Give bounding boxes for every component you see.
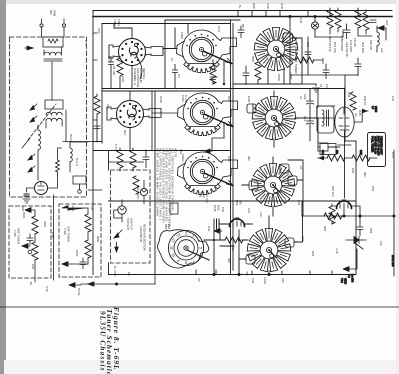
dashed enclosure VHF osc tuner [9,206,51,278]
arrow test point [214,229,222,234]
switch wafer S2B rear (toothed) [178,93,238,136]
svg-text:LOCATED IN: LOCATED IN [139,226,143,242]
wire row1 right bus hang [290,75,345,89]
svg-text:L16D: L16D [263,277,267,284]
svg-text:R25: R25 [311,251,315,257]
arrow b+ feed [88,282,94,286]
wire chain A [34,210,36,282]
switch arm diagonal [114,230,122,238]
svg-text:T04: T04 [340,278,344,283]
svg-text:C15: C15 [227,96,231,102]
svg-text:3000: 3000 [22,212,26,219]
svg-text:C40: C40 [299,18,303,24]
svg-text:33K: 33K [227,258,231,263]
capacitor chain B [80,258,86,269]
wire V3 bottom [338,137,351,145]
crystal diode M1 [311,22,318,29]
wire x155 stub [154,275,156,285]
svg-text:C3: C3 [325,84,329,88]
coil L31 [377,32,379,46]
wire wheel column left border pair [230,20,232,275]
svg-text:T-69L: T-69L [13,230,17,238]
wire row1/row2 section line [102,88,345,90]
svg-text:VHF TUNER: VHF TUNER [17,228,21,244]
junction dots right [359,215,361,217]
wire R31 [329,8,331,34]
svg-text:5600: 5600 [251,56,255,63]
tube V1 6BC8 envelope [35,182,48,195]
wire wheel2 right [295,118,338,147]
resistor R33 [296,57,314,63]
wire caps column riser [309,89,311,142]
svg-text:S4: S4 [197,278,201,282]
svg-text:31A: 31A [321,150,325,155]
svg-text:BKT: BKT [164,224,168,230]
svg-text:C34: C34 [207,226,211,232]
wire wheel3 stubs [242,157,303,216]
agc hook arrow [378,28,386,40]
coil tab row1 [283,33,293,43]
wire wheel2 stubs [253,91,274,147]
wire S2B out [223,123,225,138]
svg-text:390: 390 [247,156,251,161]
svg-text:INPUT FROM UHF TUNER: INPUT FROM UHF TUNER [294,37,298,75]
wire V3 left pins [317,106,335,118]
wire S1A stem up [114,24,132,39]
coil L7 slug box [70,148,72,162]
oscillator wheel L14 channel coil row2 [252,97,296,140]
switch contact arrow 2 [30,116,37,122]
resistor R34 vertical [335,10,341,28]
ground V1 cathode [23,199,30,203]
transformer T1 core [44,59,62,61]
wire inner shield left vertical [101,24,103,144]
wire right shield border x345 [344,89,346,142]
ground sym y84 [313,84,320,92]
wire R12 [119,148,121,171]
svg-text:1000: 1000 [75,250,79,257]
wire b+ feed row4 [81,283,155,285]
svg-text:F62A: F62A [180,32,184,39]
svg-text:IN MF, ABOVE 1 IN MMF, K=1000: IN MF, ABOVE 1 IN MMF, K=1000 OHMS. [156,148,160,218]
svg-text:B+456: B+456 [351,274,355,283]
wire wheel1 down [268,68,284,84]
extra structural wires [132,66,395,218]
svg-text:F66A: F66A [181,154,185,161]
svg-text:1000: 1000 [247,96,251,103]
wire to b+ ply arrow [69,283,81,288]
svg-text:R60: R60 [21,206,25,212]
antenna terminal G2 [62,24,65,27]
svg-text:C25: C25 [227,156,231,162]
switch pointer S1A [137,57,142,79]
svg-text:L31: L31 [380,48,384,53]
capacitor C6a [238,26,244,38]
wire S1A right wing out [163,28,175,49]
arrow chain B top [62,206,88,211]
svg-text:UHF TUNER: UHF TUNER [67,226,71,242]
svg-text:V3: V3 [354,113,358,117]
switch wafer S1A front [109,39,163,66]
wire V4 leads [332,206,361,216]
wire S1B out down [223,60,225,84]
wire B+ top bus lower [93,16,392,18]
wire A1 bottom stem [131,66,133,89]
svg-text:C8: C8 [90,206,94,210]
svg-text:9L35U Chassis: 9L35U Chassis [98,311,107,372]
capacitor C21 [307,121,314,127]
svg-text:SA2: SA2 [179,149,183,155]
capacitor chain A [27,234,33,245]
capacitor C1 [108,56,114,71]
svg-text:TO PILOT: TO PILOT [126,218,130,231]
channel dial plate outline [158,230,209,268]
svg-text:1000: 1000 [121,76,125,83]
svg-text:(CHANNEL 1): (CHANNEL 1) [133,68,137,85]
svg-text:IN F7A: IN F7A [69,134,73,143]
arrow to b+ [343,267,349,272]
trimmer C20 box [318,143,328,151]
svg-text:2: 2 [185,231,187,235]
wire osc junction vertical [214,219,239,275]
svg-text:8: 8 [185,261,187,265]
junction b+ feed [115,283,117,285]
svg-text:B+3 C: B+3 C [75,158,79,166]
wire lamp down arrow [115,242,119,252]
wire coil chain vertical [37,125,39,180]
switch contact arrow 1 [30,104,37,110]
wire left lower border x108.5 [108,151,110,275]
wire antenna sec out [63,142,102,191]
svg-text:AGC: AGC [385,20,389,26]
wire heater bus left ext [302,202,320,216]
svg-text:120: 120 [379,241,383,246]
resistor R41 plate [350,92,356,110]
coil tab row2 left [247,104,256,113]
wire L31 [376,26,378,52]
wire shield top rf x165-240 [165,19,240,21]
wire right edge feed [393,216,395,276]
switch wafer S2A front [107,101,161,128]
svg-text:OSC: OSC [217,205,221,211]
svg-text:C10: C10 [106,104,110,110]
coil L5 core [327,110,329,126]
svg-text:5600: 5600 [96,236,100,243]
wire V1 plate out [48,172,58,188]
wire S2A stem [129,91,131,151]
dial hub screw [184,246,188,250]
svg-text:C50: C50 [351,168,355,174]
svg-text:HTR: HTR [280,3,284,9]
svg-text:R40 1K: R40 1K [363,96,367,105]
svg-text:4.7K: 4.7K [335,248,339,254]
wire top right bus [290,31,372,75]
wire V3 cathode down [344,145,346,198]
svg-text:GND: GND [344,278,348,284]
resistor R35 vertical [363,12,369,30]
oscillator wheel L15 channel coil row3 [251,164,295,207]
wire heater bus [320,215,394,217]
wire top bus ticks [238,11,358,17]
coil tab row3 [280,164,289,173]
wire antenna leads [42,27,65,37]
svg-text:LMWV 82ND: LMWV 82ND [340,36,344,51]
svg-text:L2: L2 [170,58,174,62]
balun network box [43,37,63,47]
svg-text:C41 1500: C41 1500 [349,40,353,53]
oscillator wheel L13 channel coil row1 [254,28,298,71]
svg-text:1-YTL: 1-YTL [114,144,118,152]
channel dial number ring [174,236,198,260]
wire V3 right pins [354,111,368,122]
svg-text:11: 11 [169,246,173,250]
coil tab row3 left [249,181,258,190]
svg-text:R19: R19 [235,200,239,206]
svg-text:B+ 275V: B+ 275V [113,266,117,277]
svg-text:240: 240 [231,246,235,251]
svg-text:1.3 +: 1.3 + [84,40,88,47]
trimmer cap C16 [320,144,336,155]
arrow L8 [362,109,368,114]
arrow row2 gnd [205,149,212,153]
svg-text:R51 100: R51 100 [331,186,335,197]
wire V2B cathode [220,223,253,225]
tube V3 6U8 envelope [335,107,354,137]
coil tab row4 [246,255,255,264]
resistor R31 vertical [327,10,333,28]
identification plate T-69L VHF-UHF TUNER [368,133,386,167]
arrow chain B bottom [62,262,88,267]
svg-text:DC: DC [127,272,131,276]
oscillator wheel L16 channel coil row4 [247,229,291,272]
wire T1 to T2 link [51,62,53,100]
wire R7 [212,60,214,84]
wire y84 extension [302,83,316,85]
svg-text:HFM 300: HFM 300 [391,255,395,267]
resistor R43 [352,155,370,161]
resistor R32 vertical [355,10,361,28]
wire Y1A [346,240,366,249]
wire shield divider x165 [164,20,166,89]
svg-text:L6: L6 [299,166,303,170]
svg-text:LIGHT 2V: LIGHT 2V [130,218,134,230]
antenna coil L1 [38,130,41,150]
tube V3 grid dashes [339,108,349,126]
wire wheel1 right tab [292,38,302,84]
wire A2 to B2 [152,112,177,114]
wire R34 R35 [338,8,366,34]
svg-text:GEE 011 PR: GEE 011 PR [345,42,349,57]
wire shield top row1 [102,23,230,25]
wire row3/row4 section line [109,200,357,202]
wire right edge riser [393,150,395,216]
svg-text:6.3V: 6.3V [45,286,49,292]
wire R33 [290,59,323,61]
wire R3 up [58,148,62,160]
svg-text:R32 82K: R32 82K [361,42,365,53]
wire shield divider x188 [187,24,189,34]
svg-text:680: 680 [363,172,367,177]
capacitor C52 [357,216,363,236]
svg-text:C33: C33 [251,278,255,284]
svg-text:R30: R30 [306,42,310,48]
antenna terminal G1 [40,24,43,27]
arrow chain A mid [22,244,30,249]
wire b+ stub [349,249,357,269]
capacitor C41 [343,24,350,39]
svg-text:AGC: AGC [252,3,256,9]
svg-text:C31: C31 [301,236,305,242]
resistor R51 on bus [324,213,342,219]
wire M1 leads [314,17,316,38]
wire row1 inner stub [110,70,112,88]
svg-text:1800: 1800 [43,221,47,228]
svg-text:L10: L10 [259,212,263,217]
wire antenna stubs [42,19,65,24]
arrow chain A top [25,208,35,213]
wire R13 [132,148,134,171]
svg-text:L4: L4 [299,96,303,100]
capacitor C44 [370,20,376,23]
arrow head agc [378,26,384,31]
capacitor C13 [143,150,149,168]
resistor R52 vertical [329,206,335,224]
wire dial column left border x155 [154,91,156,275]
capacitor C46 on bus [355,58,361,76]
junction dot heater [393,215,395,217]
wire wheel4 stubs [239,216,303,275]
junction dots bus [289,15,291,17]
resistor R22 [225,237,243,243]
resistor chain A1 [32,216,38,234]
svg-text:6.3V: 6.3V [266,3,270,9]
wire page bottom rule [0,306,399,308]
svg-text:R17 33K: R17 33K [205,192,209,203]
lamp I2 [118,206,126,214]
ground arrow row1 [210,77,217,84]
wire wheel1 bottom bus [233,83,302,85]
wire B+ top bus upper [93,10,392,12]
junction dots bottom bus [238,273,240,275]
junction dots osc [238,239,240,241]
capacitor C7 row1 [243,66,249,85]
svg-text:UHF ONLY: UHF ONLY [136,185,140,199]
switch contact arrow 3 [28,154,35,160]
wire between strips [53,195,55,280]
wire osc mid vertical x224 row2 [212,138,224,151]
wire R6 [257,60,259,84]
svg-text:R36 10K: R36 10K [369,40,373,50]
switch contact arrow 4 [28,166,35,172]
coil box L5 [317,106,334,133]
svg-text:R5: R5 [241,24,245,28]
dial pointer [187,250,209,260]
svg-text:TO B+: TO B+ [77,288,81,296]
svg-text:C60: C60 [31,264,35,270]
wire R11 [96,94,98,142]
wire L5 box top pin [317,89,319,107]
svg-text:R14: R14 [123,130,127,136]
capacitor C45 [305,52,311,55]
lamp I1 [140,188,147,195]
wire R22 [214,239,248,241]
svg-text:C6 5: C6 5 [217,26,221,32]
crystal diode Y1A mixer [350,237,362,244]
svg-text:C42 68: C42 68 [353,38,357,47]
coil tab row4 right [285,238,294,247]
coil L5 winding [322,110,324,126]
svg-text:B+: B+ [238,5,242,9]
svg-text:R9: R9 [90,246,94,250]
tube V4 dome [337,200,352,209]
svg-text:1560: 1560 [277,74,281,81]
svg-text:B+: B+ [29,282,33,286]
resistor R1 vertical [117,58,123,76]
svg-text:OHM: OHM [53,10,57,17]
tuning slug arrow diagonal [28,104,56,140]
svg-text:1500: 1500 [321,58,325,65]
wire left border vertical [92,11,94,275]
wire R1 [119,56,121,88]
wire row3 left entry [109,161,144,163]
wire R52 [331,204,333,224]
dashed enclosure VHF antenna input [10,37,87,197]
channel dial outer ring [168,230,203,265]
svg-text:C25: C25 [198,192,202,198]
svg-text:5: 5 [199,247,203,249]
svg-text:1537: 1537 [391,152,395,159]
feedthru C5 [78,190,82,194]
svg-text:RECEIVER SECTION: RECEIVER SECTION [143,224,147,250]
wire R42 R43 row [318,157,377,159]
svg-text:L3: L3 [319,84,323,88]
dashed enclosure dial lamps [111,170,151,263]
svg-text:300: 300 [49,10,53,15]
wire top right drop [345,74,358,76]
svg-text:R1 10K: R1 10K [112,66,116,75]
resistor chain B1 [85,214,91,232]
coil tab row3 right [288,176,297,185]
resistor chain A2 [32,242,38,260]
capacitor C19 [307,101,314,107]
junction dot [223,83,225,85]
svg-text:T60A: T60A [113,19,117,26]
svg-text:1000: 1000 [301,200,305,207]
svg-text:MWT R1 4TK: MWT R1 4TK [328,36,332,52]
switch wafer S1B rear (toothed) [177,30,237,73]
wire mid right riser [302,37,308,75]
caption: Figure 8. T-69L Tuner Schematic 9L35U Chassis [98,307,121,374]
wire A2 shield box right [151,91,153,151]
wire lamp leads [122,180,144,218]
wire L7 leads [70,142,88,190]
resistor R7 vertical [210,66,216,84]
wire V3 plate [344,88,346,107]
channel dial hub [178,240,195,257]
svg-text:C48: C48 [347,92,351,98]
svg-text:C-15A: C-15A [184,95,188,104]
switch wafer S3B toothed [178,152,238,195]
svg-text:470: 470 [245,271,249,276]
svg-text:C4: C4 [177,74,181,78]
main schematic content inserted below [0,8,399,307]
svg-text:1000: 1000 [202,192,206,199]
label 303 arrow [25,47,33,49]
wire L1 top link [65,110,67,142]
tube V1 grid [38,182,44,191]
arrow to balun [27,46,33,50]
resistor R1 in balun [48,39,58,43]
